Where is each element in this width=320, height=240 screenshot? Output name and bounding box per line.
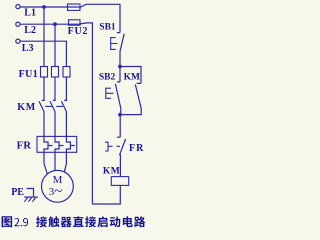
contactor KM main contact phase1 <box>39 101 44 136</box>
thermal relay FR heater box <box>37 136 77 152</box>
node junction dot SB2/KM merge <box>118 113 122 117</box>
wire L1 feed to control rail <box>81 4 120 32</box>
contactor KM main contact phase2 <box>50 101 55 136</box>
coil KM <box>111 177 128 186</box>
wire motor lead phase1 <box>44 152 47 173</box>
wire V1 upper <box>43 7 45 67</box>
thermal relay FR heater phase1 <box>44 136 53 152</box>
wire V2 upper <box>54 24 56 66</box>
node junction dot L2/V2 <box>53 22 57 26</box>
wire PE lead <box>27 189 34 197</box>
terminal L2 <box>16 22 20 26</box>
pushbutton SB1 actuator E <box>111 38 118 50</box>
wire motor lead phase3 <box>64 152 66 172</box>
wire L3 phase bus <box>20 41 66 66</box>
caption 图2.9 接触器直接启动电路 <box>2 216 146 227</box>
wire L1 phase bus <box>20 6 81 8</box>
wire L2 phase bus <box>20 23 81 25</box>
terminal L1 <box>16 5 20 9</box>
fuse FU2 upper <box>68 4 81 10</box>
wire coil return <box>92 185 120 204</box>
contactor KM main contact phase3 <box>61 101 66 136</box>
wire V3 fuse to contact <box>64 77 67 100</box>
terminal L3 <box>16 39 20 43</box>
wire SB2 branch upper <box>117 67 120 83</box>
thermal relay FR NC contact <box>119 139 125 177</box>
wire motor lead phase2 <box>54 152 56 170</box>
motor M 3~ <box>42 170 74 202</box>
wire V1 fuse to contact <box>42 77 45 100</box>
svg-text:~: ~ <box>54 184 62 200</box>
thermal relay FR actuator <box>105 142 120 151</box>
contactor KM auxiliary NO contact <box>120 84 141 114</box>
wire V2 fuse to contact <box>53 77 56 100</box>
svg-text:FR: FR <box>129 143 144 154</box>
fuse FU1 phase3 <box>63 67 70 78</box>
svg-text:L3: L3 <box>22 43 34 54</box>
wire KM aux branch top <box>120 67 141 84</box>
pushbutton SB2 actuator E <box>106 88 114 98</box>
pushbutton SB2 start NO contact <box>115 84 121 115</box>
svg-text:KM: KM <box>124 73 140 83</box>
svg-text:SB2: SB2 <box>99 73 116 83</box>
svg-text:FR: FR <box>17 140 32 151</box>
svg-text:FU2: FU2 <box>68 26 89 37</box>
thermal relay FR heater phase3 <box>66 136 75 152</box>
fuse FU1 phase2 <box>52 67 59 78</box>
fuse FU2 lower <box>69 20 81 25</box>
svg-text:PE: PE <box>11 187 24 198</box>
wire L2 feed to control return rail <box>81 23 93 204</box>
svg-text:L2: L2 <box>24 25 36 36</box>
ground hatches <box>24 198 35 202</box>
svg-text:KM: KM <box>103 167 120 177</box>
wire rail to FR contact <box>117 115 120 138</box>
svg-text:L1: L1 <box>24 8 36 19</box>
fuse FU1 phase1 <box>41 67 48 78</box>
thermal relay FR heater phase2 <box>55 136 64 152</box>
ground earth bar <box>24 196 38 198</box>
svg-text:FU1: FU1 <box>19 69 39 80</box>
svg-text:KM: KM <box>17 102 36 113</box>
wire KM linkage dashes <box>45 105 63 107</box>
svg-text:SB1: SB1 <box>99 23 116 33</box>
node junction dot L1/V1 <box>42 5 46 9</box>
node junction dot control branch <box>118 65 122 69</box>
pushbutton SB1 stop NC contact <box>117 33 124 67</box>
